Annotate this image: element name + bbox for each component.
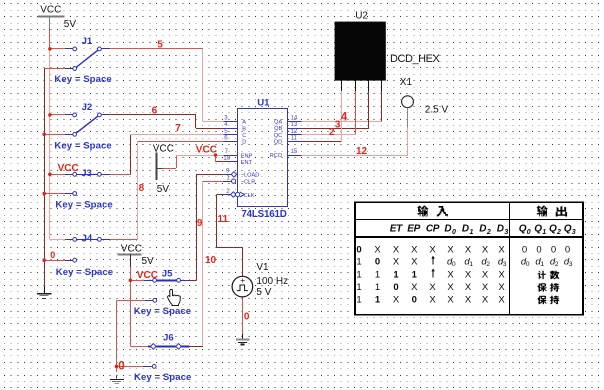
wire VCC rail from VCC1 symbol [49, 28, 51, 49]
svg-text:5 V: 5 V [256, 287, 271, 298]
svg-text:V1: V1 [256, 262, 269, 273]
wire net 1: QD to U2 [302, 141, 342, 143]
svg-text:12: 12 [291, 129, 298, 135]
svg-text:X: X [465, 282, 472, 293]
wire VCC rail to J2 throw [50, 114, 65, 116]
svg-text:X: X [465, 295, 472, 306]
svg-text:X: X [465, 244, 472, 255]
wire net 4: QA to U2 [302, 121, 382, 123]
svg-text:1: 1 [356, 257, 361, 268]
svg-text:VCC: VCC [40, 5, 61, 16]
svg-text:X: X [411, 244, 418, 255]
wire net 10: CLK pin to V1 plus [217, 194, 223, 196]
op-amp U1 74LS161D counter [238, 109, 288, 207]
svg-text:100 Hz: 100 Hz [256, 276, 288, 287]
svg-text:0: 0 [536, 244, 541, 255]
svg-text:10: 10 [205, 255, 217, 266]
svg-text:7: 7 [175, 123, 181, 134]
svg-text:8: 8 [139, 183, 145, 194]
svg-text:1: 1 [412, 269, 418, 280]
svg-text:X: X [498, 244, 505, 255]
svg-text:74LS161D: 74LS161D [241, 209, 286, 220]
svg-text:Key = Space: Key = Space [134, 372, 191, 383]
svg-text:VCC: VCC [137, 270, 158, 281]
svg-text:Q: Q [519, 223, 527, 234]
svg-text:Q: Q [534, 223, 542, 234]
svg-text:X: X [447, 282, 454, 293]
wire net 11: ~CLR pin to J6 common [203, 181, 223, 183]
svg-text:1: 1 [393, 269, 399, 280]
svg-text:J3: J3 [81, 168, 92, 179]
wire net 12: RCO to probe X1 [302, 155, 408, 157]
svg-text:VCC: VCC [121, 243, 142, 254]
wire VCC rail to J1 throw [50, 48, 65, 50]
svg-text:D: D [497, 223, 504, 234]
svg-text:VCC: VCC [196, 145, 217, 156]
svg-text:3: 3 [572, 229, 576, 236]
svg-text:Key = Space: Key = Space [134, 306, 191, 317]
switch J6 (SPDT) [143, 344, 189, 369]
power VCC symbol (top left, 5V) [38, 5, 76, 30]
wire net 0: J5/J6 bottom throws to ground [116, 300, 145, 302]
wire net 3: QB to U2 [302, 128, 369, 130]
node gnd/J2 junction [42, 133, 46, 137]
switch J2 (SPDT) [65, 113, 110, 136]
svg-text:1: 1 [375, 282, 380, 293]
wire J4 bottom throw to ground rail [44, 260, 65, 262]
pin CLK diamond+bubble+triangle [231, 192, 236, 197]
svg-text:X: X [393, 257, 400, 268]
svg-text:J2: J2 [82, 102, 93, 113]
svg-text:X: X [411, 282, 418, 293]
svg-text:J4: J4 [82, 234, 93, 245]
svg-text:VCC: VCC [58, 163, 79, 174]
svg-text:~LOAD: ~LOAD [241, 173, 259, 179]
node ENP/ENT junction [214, 153, 218, 157]
ground (V1) [236, 340, 249, 345]
wire net 6: J2 common to U1 pin B [104, 114, 196, 116]
svg-text:X1: X1 [400, 77, 413, 88]
switch J3 (SPDT) [65, 172, 110, 195]
svg-text:10: 10 [223, 156, 230, 162]
计数 row3 [538, 271, 547, 279]
svg-text:CLK: CLK [244, 193, 255, 199]
svg-text:QC: QC [274, 133, 282, 139]
svg-text:0: 0 [551, 244, 556, 255]
svg-text:11: 11 [218, 214, 229, 225]
svg-text:12: 12 [356, 146, 368, 157]
svg-text:0: 0 [244, 311, 250, 322]
svg-text:14: 14 [291, 116, 298, 122]
svg-text:2: 2 [556, 229, 561, 236]
table data [356, 244, 573, 305]
svg-text:0: 0 [356, 244, 361, 255]
column headers [390, 223, 576, 235]
svg-text:0: 0 [375, 257, 380, 268]
svg-text:X: X [498, 295, 505, 306]
node gnd/J3 junction [42, 192, 46, 196]
svg-text:X: X [447, 269, 454, 280]
svg-text:5V: 5V [142, 256, 155, 267]
switch J4 (SPDT) [65, 238, 110, 263]
保持 row5 [537, 296, 547, 304]
wire net 7: J3 common to U1 pin C [104, 174, 130, 176]
truth table [354, 202, 583, 314]
svg-text:EP: EP [407, 223, 420, 234]
svg-text:6: 6 [152, 105, 158, 116]
svg-text:DCD_HEX: DCD_HEX [390, 53, 441, 65]
svg-text:5V: 5V [64, 19, 77, 30]
wire VCC rail to J4 throw [50, 239, 65, 241]
svg-text:1: 1 [470, 229, 474, 236]
svg-text:0: 0 [452, 229, 456, 236]
svg-text:X: X [429, 244, 436, 255]
svg-text:X: X [482, 269, 489, 280]
svg-text:15: 15 [291, 149, 298, 155]
pin ~LOAD diamond [231, 172, 236, 177]
svg-text:4: 4 [341, 111, 348, 123]
wire J1 bottom throw to ground rail [44, 68, 65, 70]
svg-text:X: X [393, 244, 400, 255]
svg-text:~CLR: ~CLR [241, 179, 255, 185]
mouse hand cursor [168, 289, 181, 305]
svg-text:J6: J6 [163, 332, 174, 343]
header 输出 [537, 206, 548, 217]
svg-text:X: X [374, 244, 381, 255]
node 0 J6 junction [115, 365, 119, 369]
svg-text:1: 1 [356, 282, 361, 293]
svg-text:1: 1 [356, 269, 361, 280]
svg-text:0: 0 [527, 229, 531, 236]
power VCC symbol (rotated, for ENP/ENT) [153, 144, 174, 195]
svg-text:Q: Q [549, 223, 557, 234]
svg-text:A: A [242, 120, 246, 126]
svg-text:Q: Q [564, 223, 572, 234]
wire VCC rail to J3 throw [50, 174, 65, 176]
svg-text:RCO: RCO [270, 153, 283, 159]
wire J3 bottom throw to ground rail [44, 193, 65, 195]
svg-text:X: X [393, 295, 400, 306]
svg-text:X: X [447, 244, 454, 255]
svg-text:VCC: VCC [153, 144, 174, 155]
pin ~CLR bubble [232, 179, 236, 183]
U1 pin stubs [223, 122, 302, 195]
wire net 9: ~LOAD pin to J5 common [196, 174, 223, 176]
svg-text:0: 0 [452, 261, 456, 268]
svg-text:D: D [444, 223, 451, 234]
svg-text:2.5 V: 2.5 V [425, 105, 449, 116]
svg-text:0: 0 [50, 250, 55, 260]
svg-text:Key = Space: Key = Space [54, 74, 111, 85]
svg-text:0: 0 [526, 261, 530, 268]
svg-text:0: 0 [522, 244, 527, 255]
svg-text:X: X [498, 269, 505, 280]
svg-text:U1: U1 [257, 97, 270, 108]
svg-text:D: D [462, 223, 469, 234]
svg-text:ENT: ENT [241, 160, 253, 166]
svg-text:Key = Space: Key = Space [55, 200, 112, 211]
svg-text:1: 1 [356, 295, 361, 306]
svg-text:X: X [411, 257, 418, 268]
U2 DCD_HEX display [335, 22, 386, 81]
svg-text:1: 1 [375, 295, 381, 306]
svg-text:QB: QB [274, 126, 282, 132]
svg-text:5: 5 [157, 40, 163, 51]
switch J1 (SPDT) [65, 47, 110, 70]
svg-text:D: D [479, 223, 486, 234]
svg-text:13: 13 [291, 122, 298, 128]
svg-text:2: 2 [555, 261, 559, 268]
svg-text:3: 3 [503, 261, 507, 268]
svg-text:J1: J1 [82, 36, 93, 47]
svg-text:X: X [498, 282, 505, 293]
wire V1 minus to ground [242, 297, 244, 334]
wire net 8: J4 common to U1 pin D [104, 239, 137, 241]
svg-text:2: 2 [486, 229, 491, 236]
svg-text:CP: CP [426, 223, 440, 234]
保持 row4 [537, 283, 547, 291]
svg-text:X: X [482, 244, 489, 255]
svg-text:1: 1 [375, 269, 380, 280]
node VCC/J3 junction [48, 173, 52, 177]
node VCC/J2 junction [48, 113, 52, 117]
svg-text:ENP: ENP [241, 153, 253, 159]
svg-text:J5: J5 [162, 269, 173, 280]
wire VCC2 to J5 top throw and J6 left throw [130, 267, 132, 281]
svg-text:ET: ET [390, 223, 403, 234]
ground (left rail, net 0) [37, 287, 51, 299]
header 输入 [417, 206, 428, 217]
svg-text:Key = Space: Key = Space [54, 140, 111, 151]
svg-text:D: D [242, 140, 246, 146]
svg-text:3: 3 [569, 261, 573, 268]
node VCC/J1 junction [48, 47, 52, 51]
wire VCC net to ENP/ENT pins [163, 168, 176, 170]
svg-text:2: 2 [486, 261, 490, 268]
svg-text:C: C [242, 133, 246, 139]
svg-text:+: + [240, 275, 245, 285]
svg-text:Key = Space: Key = Space [56, 267, 113, 278]
wire net 2: QC to U2 [302, 134, 356, 136]
node gnd/J4 junction [42, 258, 46, 262]
svg-text:0: 0 [412, 295, 417, 306]
svg-text:1: 1 [540, 261, 544, 268]
svg-text:1: 1 [469, 261, 473, 268]
svg-text:B: B [242, 126, 246, 132]
svg-text:1: 1 [542, 229, 546, 236]
svg-text:3: 3 [504, 229, 508, 236]
svg-text:X: X [465, 269, 472, 280]
power VCC symbol (middle, for J5/J6) [117, 243, 154, 267]
svg-text:X: X [482, 282, 489, 293]
wire ground rail (net 0) [44, 69, 46, 287]
node VCC2/J5 junction [129, 279, 133, 283]
svg-text:QA: QA [274, 120, 282, 126]
svg-text:5V: 5V [157, 184, 170, 195]
svg-text:11: 11 [291, 136, 298, 142]
switch J5 (SPDT) [144, 278, 188, 302]
svg-text:0: 0 [565, 244, 570, 255]
ground (J5/J6, net 0) [110, 376, 124, 384]
svg-text:9: 9 [197, 218, 203, 229]
clock source V1 [232, 276, 253, 297]
svg-text:U2: U2 [355, 11, 368, 22]
wire J2 bottom throw to ground rail [44, 134, 65, 136]
svg-text:QD: QD [274, 140, 282, 146]
svg-text:X: X [429, 295, 436, 306]
svg-text:X: X [429, 282, 436, 293]
svg-text:0: 0 [393, 282, 398, 293]
svg-text:X: X [447, 295, 454, 306]
svg-text:X: X [482, 295, 489, 306]
svg-text:0: 0 [118, 360, 124, 372]
wire net 5: J1 common to U1 pin A [104, 48, 202, 50]
